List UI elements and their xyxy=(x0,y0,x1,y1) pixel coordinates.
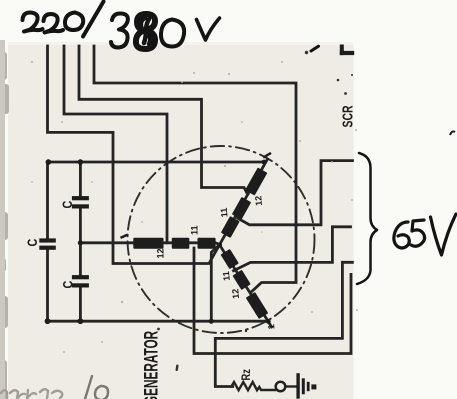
svg-text:SCR: SCR xyxy=(340,105,356,127)
svg-text:11: 11 xyxy=(219,207,230,217)
svg-text:C: C xyxy=(60,281,75,289)
svg-text:12: 12 xyxy=(156,248,166,258)
svg-text:12: 12 xyxy=(253,195,264,206)
svg-text:C: C xyxy=(60,201,75,209)
svg-text:Rz: Rz xyxy=(240,369,253,380)
svg-text:GENERATOR: GENERATOR xyxy=(142,330,162,399)
svg-text:C: C xyxy=(25,239,40,247)
svg-text:12: 12 xyxy=(230,288,241,299)
svg-text:11: 11 xyxy=(221,271,232,281)
svg-text:1: 1 xyxy=(266,324,276,330)
svg-text:11: 11 xyxy=(190,225,200,235)
